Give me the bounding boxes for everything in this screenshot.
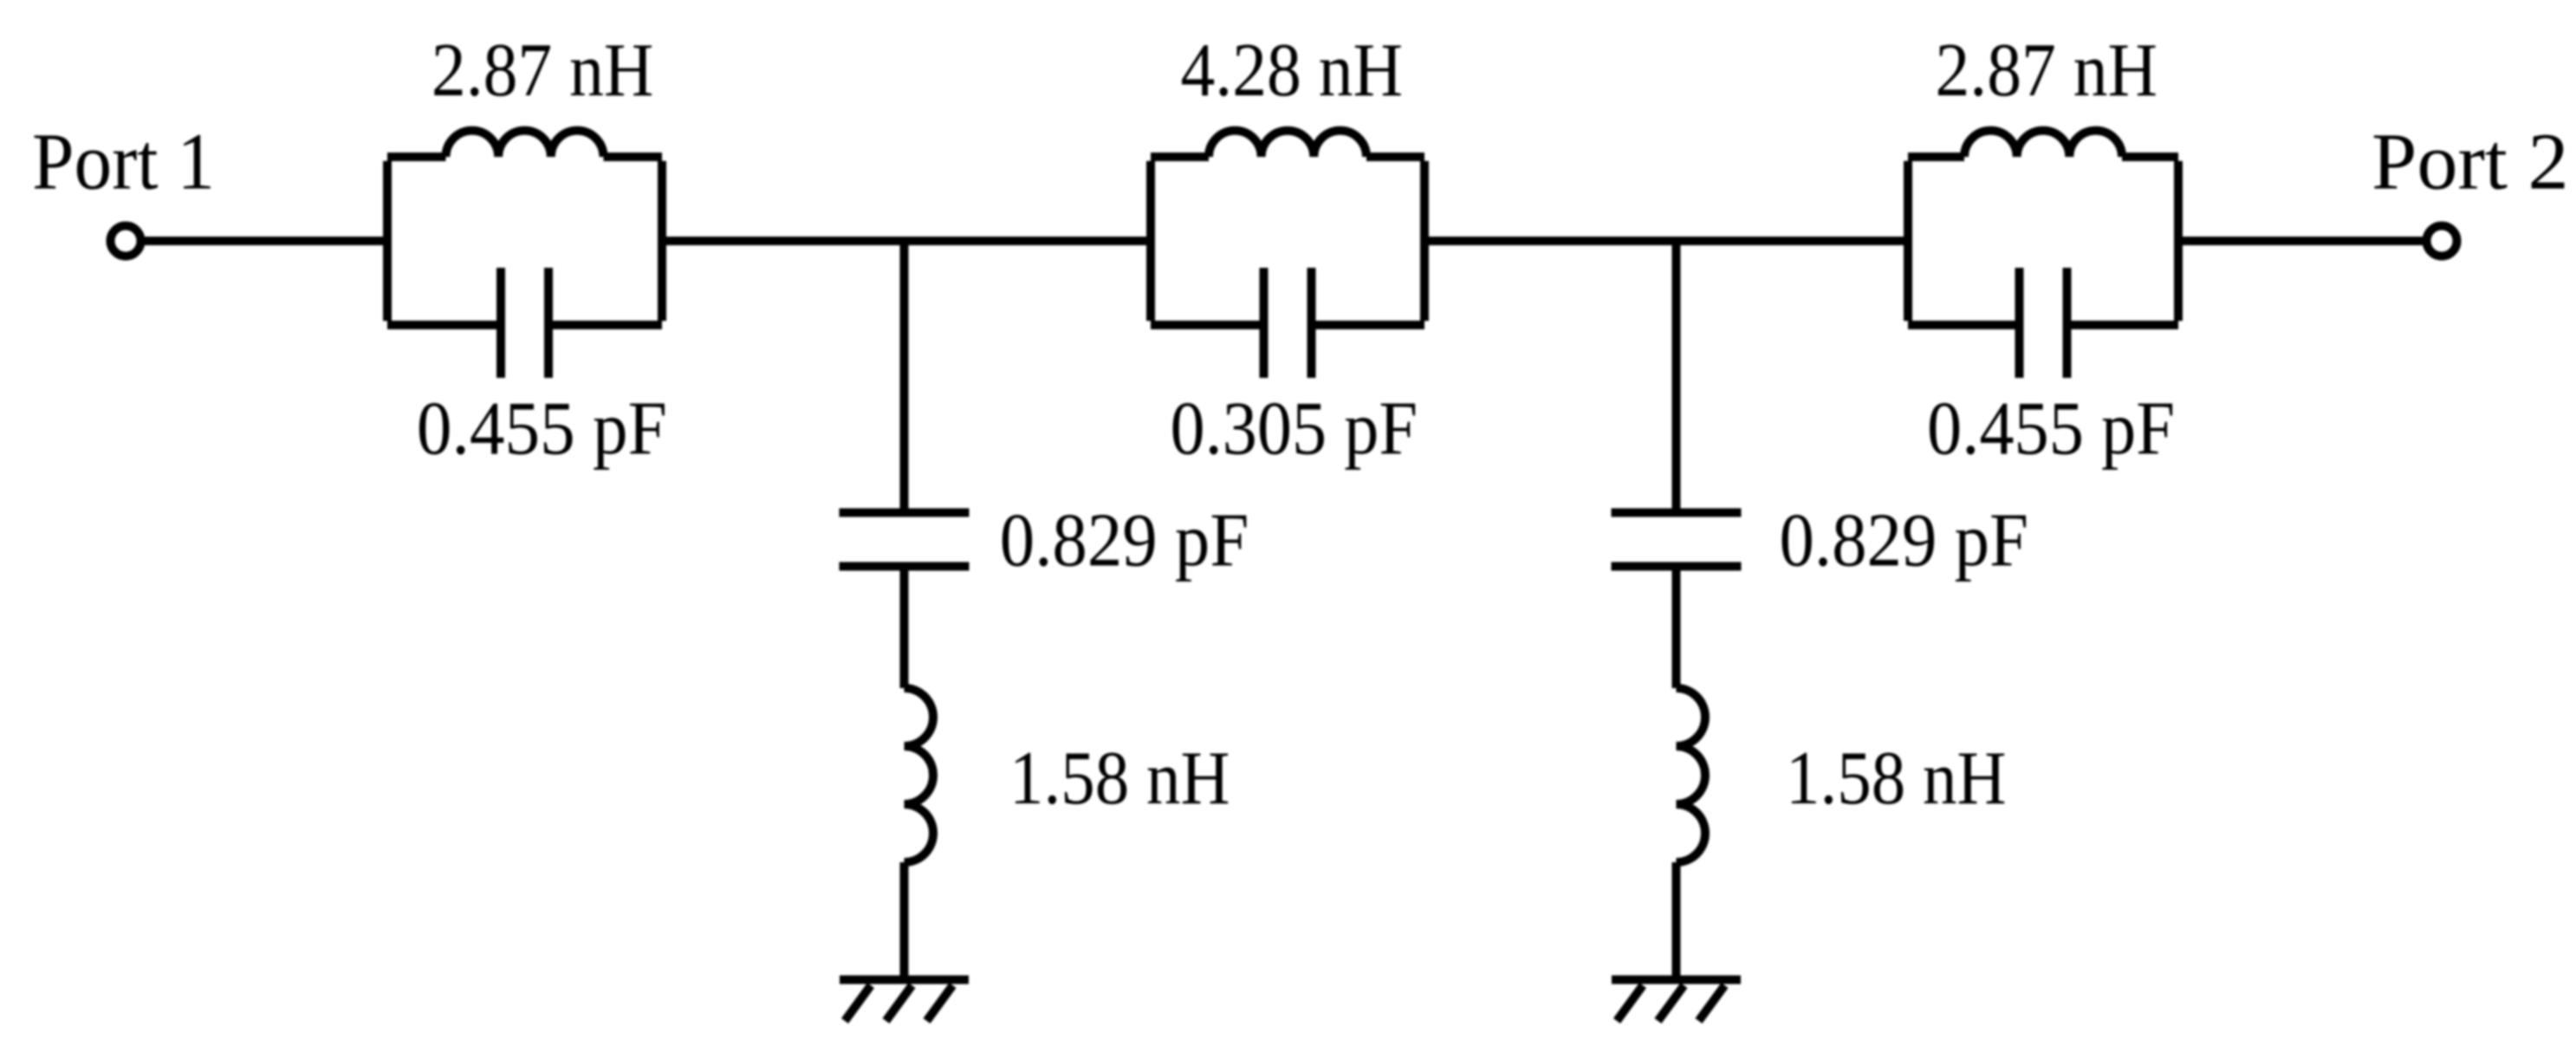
wire tank1 to tank2 [658,237,1155,245]
wire L5 to ground [1672,862,1681,980]
wire C4 to L4 [900,567,909,689]
svg-text:1.58 nH: 1.58 nH [1786,737,2007,821]
wire C5 to L5 [1672,567,1681,689]
svg-text:1.58 nH: 1.58 nH [1009,737,1230,821]
inductor L3 2.87 nH arcs [1964,131,2122,157]
capacitor C5 0.829 pF plates [1612,513,1742,567]
svg-text:2.87 nH: 2.87 nH [1936,29,2158,113]
svg-text:Port 2: Port 2 [2372,118,2569,207]
capacitor C2 0.305 pF plates [1264,268,1312,378]
svg-text:0.829 pF: 0.829 pF [1780,499,2029,583]
inductor L4 1.58 nH coil [905,688,934,862]
svg-text:Port 1: Port 1 [32,118,215,207]
shunt branch 2: node wire down [1672,241,1681,512]
svg-text:2.87 nH: 2.87 nH [431,29,654,113]
inductor L2 4.28 nH arcs [1209,131,1366,157]
wire L4 to ground [900,862,909,980]
wire Port1 to tank1 [145,237,392,245]
LC tank 1 (2.87 nH / 0.455 pF) box [387,157,662,325]
LC tank 2 (4.28 nH / 0.305 pF) box [1151,157,1424,325]
capacitor C3 0.455 pF plates [2020,268,2067,378]
svg-text:0.455 pF: 0.455 pF [417,387,667,471]
svg-text:0.455 pF: 0.455 pF [1927,387,2175,471]
wire tank2 to tank3 [1420,237,1912,245]
capacitor C1 0.455 pF plates [501,268,548,378]
svg-text:4.28 nH: 4.28 nH [1181,29,1404,113]
capacitor C4 0.829 pF plates [840,513,970,567]
shunt branch 1: node wire down [900,241,909,512]
LC tank 3 (2.87 nH / 0.455 pF) box [1908,157,2178,325]
inductor L5 1.58 nH coil [1677,688,1705,862]
inductor L1 2.87 nH arcs [446,131,604,157]
node Port 1 terminal [111,226,141,257]
ground 2 [1612,980,1741,1022]
node Port 2 terminal [2427,226,2457,257]
ground 1 [840,980,969,1022]
svg-text:0.829 pF: 0.829 pF [1000,499,1249,583]
wire tank3 to Port2 [2174,237,2425,245]
svg-text:0.305 pF: 0.305 pF [1171,387,1418,471]
